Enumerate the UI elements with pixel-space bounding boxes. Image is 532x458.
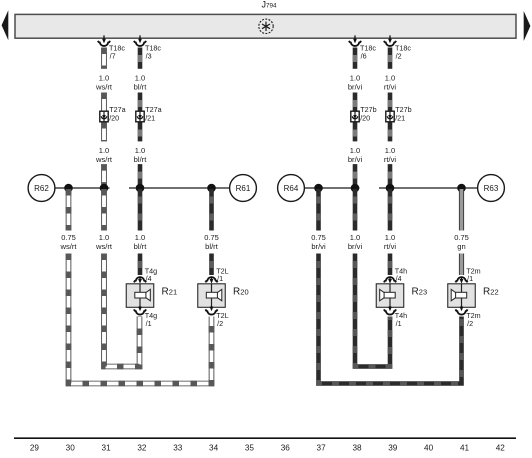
junction dot x=390 [386,184,395,193]
svg-text:36: 36 [281,444,291,453]
wire ws/rt segment x=104 y47.5-68.8 [101,48,107,69]
wire label 1.0 br/vi x=355 [348,73,363,91]
svg-text:1.0: 1.0 [99,146,109,155]
loudspeaker R20 [198,284,226,308]
svg-text:/1: /1 [396,319,402,328]
node R62 [28,175,55,202]
wire br/vi return loop outer right (R64 to R22) [319,254,462,384]
svg-text:bl/rt: bl/rt [205,242,219,251]
wire br/vi return loop inner right (to R23) [355,254,390,367]
wire br/vi segment x=355 y47.5-68.8 [353,48,358,69]
wire ws/rt segment x=104 y164.1-185.5 [101,164,107,185]
svg-text:39: 39 [388,444,398,453]
wire bl/rt segment x=140 y92.5-110.8 [138,93,143,111]
wire br/vi segment x=355 y164.1-185.5 [353,164,358,185]
svg-text:br/vi: br/vi [348,242,363,251]
svg-text:/2: /2 [467,319,473,328]
svg-text:R20: R20 [233,287,249,298]
wire bl/rt feed into speaker R20 [209,254,214,276]
junction dot x=140 [136,184,145,193]
wire rt/vi feed into speaker R23 [388,254,393,276]
svg-text:R64: R64 [284,184,299,193]
inline connector T27a/21 [136,105,162,123]
junction dot x=68.5 [64,184,73,193]
connector T18c/7 at bar [98,35,125,60]
svg-text:1.0: 1.0 [350,146,360,155]
svg-text:/7: /7 [110,51,116,60]
continuation arrow left [2,10,9,40]
wire label 1.0 bl/rt x=140 [134,146,148,164]
inline connector T27a/20 [100,105,126,123]
wire label 1.0 rt/vi x=390 [384,233,397,251]
connector T18c/3 at bar [134,35,161,60]
svg-text:/3: /3 [146,51,152,60]
svg-text:34: 34 [209,444,219,453]
svg-text:bl/rt: bl/rt [134,155,148,164]
svg-text:1.0: 1.0 [99,233,109,242]
svg-text:/6: /6 [361,51,367,60]
svg-text:1.0: 1.0 [350,73,360,82]
wire 1.0 rt/vi below junction [388,189,393,231]
inline connector T27b/20 [351,105,377,123]
svg-text:br/vi: br/vi [348,155,363,164]
svg-text:1.0: 1.0 [385,73,395,82]
svg-text:0.75: 0.75 [61,233,76,242]
connector T4g/4 at top of speaker R21 [134,267,157,284]
svg-text:1.0: 1.0 [135,233,145,242]
node rail left ws/rt (R62) [55,187,110,189]
wire label 1.0 ws/rt x=104 [95,73,113,91]
node R63 [478,175,505,202]
wire label 1.0 rt/vi x=390 [384,146,397,164]
svg-text:37: 37 [317,444,327,453]
wire ws/rt segment x=104 y92.5-110.8 [101,93,107,111]
svg-text:/21: /21 [395,114,405,123]
junction dot x=355 [351,184,360,193]
svg-text:ws/rt: ws/rt [95,242,113,251]
connector T2m/1 at top of speaker R22 [456,267,481,284]
svg-text:/1: /1 [146,319,152,328]
wire 0.75 ws/rt below node R62 [66,189,72,231]
svg-text:33: 33 [173,444,183,453]
wire label 0.75 ws/rt x=68.5 [59,233,77,251]
svg-text:1.0: 1.0 [385,233,395,242]
svg-text:ws/rt: ws/rt [95,83,113,92]
wire br/vi segment x=355 y122.0-141.4 [353,122,358,141]
junction dot x=461.5 [457,184,466,193]
connector T2m/2 at bottom of speaker R22 [456,306,481,328]
loudspeaker R22 [448,284,476,308]
svg-text:0.75: 0.75 [311,233,326,242]
svg-text:/20: /20 [109,114,119,123]
svg-text:R21: R21 [162,287,178,298]
svg-text:41: 41 [460,444,470,453]
svg-text:R62: R62 [34,184,49,193]
wire rt/vi segment x=390 y122.0-141.4 [388,122,393,141]
wire bl/rt feed into speaker R21 [138,254,143,276]
connector T18c/2 at bar [384,35,411,60]
wire label 1.0 br/vi x=355 [348,233,363,251]
wire bl/rt segment x=140 y47.5-68.8 [138,48,143,69]
svg-text:br/vi: br/vi [311,242,326,251]
wire bl/rt segment x=140 y164.1-185.5 [138,164,143,185]
node R61 [230,175,257,202]
wire 0.75 br/vi below node R64 [316,189,321,231]
svg-text:/1: /1 [467,274,473,283]
wire label 1.0 bl/rt x=140 [134,73,148,91]
wire rt/vi segment x=390 y92.5-110.8 [388,93,393,111]
node rail right br/vi (R64) [304,187,359,189]
node R64 [278,175,305,202]
svg-text:1.0: 1.0 [350,233,360,242]
loudspeaker R21 [126,284,154,308]
wire label 0.75 br/vi x=318.5 [311,233,326,251]
svg-text:30: 30 [66,444,76,453]
continuation arrow right [524,11,531,41]
svg-text:rt/vi: rt/vi [384,83,397,92]
wire 0.75 gn below junction [459,189,464,231]
wire label 0.75 bl/rt x=211.5 [204,233,219,251]
wire label 1.0 bl/rt x=140 [134,233,148,251]
svg-text:35: 35 [245,444,255,453]
wire 1.0 ws/rt below junction [101,189,107,231]
svg-text:/4: /4 [146,274,152,283]
wire label 1.0 ws/rt x=104 [95,146,113,164]
control unit bus bar J794 [15,14,516,38]
track numbers 29-42 [30,444,505,453]
svg-text:0.75: 0.75 [454,233,469,242]
svg-text:40: 40 [424,444,434,453]
connector T2L/2 at bottom of speaker R20 [206,306,229,328]
wire rt/vi segment x=390 y47.5-68.8 [388,48,393,69]
svg-text:R22: R22 [483,287,499,298]
svg-text:br/vi: br/vi [348,83,363,92]
connector T4h/1 at bottom of speaker R23 [384,306,407,328]
svg-text:R23: R23 [412,287,428,298]
svg-text:rt/vi: rt/vi [384,155,397,164]
junction dot x=104 [100,184,109,193]
svg-text:ws/rt: ws/rt [59,242,77,251]
wire label 1.0 br/vi x=355 [348,146,363,164]
connector T2L/1 at top of speaker R20 [206,267,229,284]
svg-text:29: 29 [30,444,40,453]
wire ws/rt segment x=104 y122.0-141.4 [101,122,107,141]
svg-text:42: 42 [496,444,506,453]
svg-text:1.0: 1.0 [385,146,395,155]
wire 1.0 bl/rt below junction [138,189,143,231]
wire ws/rt return loop outer left (R62 to R20) [69,254,212,384]
svg-text:bl/rt: bl/rt [134,83,148,92]
svg-text:1.0: 1.0 [135,146,145,155]
svg-text:38: 38 [352,444,362,453]
wire label 1.0 rt/vi x=390 [384,73,397,91]
svg-text:bl/rt: bl/rt [134,242,148,251]
junction dot x=211.5 [207,184,216,193]
loudspeaker R23 [376,284,404,308]
connector T4g/1 at bottom of speaker R21 [134,306,157,328]
svg-text:31: 31 [102,444,112,453]
svg-text:32: 32 [137,444,147,453]
wire label 1.0 ws/rt x=104 [95,233,113,251]
wire bl/rt segment x=140 y122.0-141.4 [138,122,143,141]
wire rt/vi segment x=390 y164.1-185.5 [388,164,393,185]
svg-text:ws/rt: ws/rt [95,155,113,164]
svg-text:R61: R61 [236,184,251,193]
svg-text:J794: J794 [262,0,278,9]
inline connector T27b/21 [386,105,412,123]
svg-text:1.0: 1.0 [99,73,109,82]
node rail left bl/rt (R61) [129,187,230,189]
node rail right (R63) [379,187,478,189]
wire label 0.75 gn x=461.5 [454,233,469,251]
svg-text:gn: gn [457,242,465,251]
svg-text:0.75: 0.75 [204,233,219,242]
svg-text:/2: /2 [217,319,223,328]
svg-text:rt/vi: rt/vi [384,242,397,251]
bottom rail line [14,437,516,439]
svg-text:/2: /2 [396,51,402,60]
connector T18c/6 at bar [349,35,376,60]
svg-text:/21: /21 [145,114,155,123]
svg-text:1.0: 1.0 [135,73,145,82]
symbol circled asterisk in bar [259,19,273,33]
wire gn feed into speaker R22 [459,254,464,276]
connector T4h/4 at top of speaker R23 [384,267,407,284]
junction dot x=318.5 [314,184,323,193]
wire ws/rt return loop inner left (to R21) [104,254,140,367]
wire 0.75 bl/rt below junction [209,189,214,231]
svg-text:/1: /1 [217,274,223,283]
wire 1.0 br/vi below junction [353,189,358,231]
svg-text:/4: /4 [396,274,402,283]
svg-text:R63: R63 [484,184,499,193]
wire br/vi segment x=355 y92.5-110.8 [353,93,358,111]
svg-text:/20: /20 [360,114,370,123]
